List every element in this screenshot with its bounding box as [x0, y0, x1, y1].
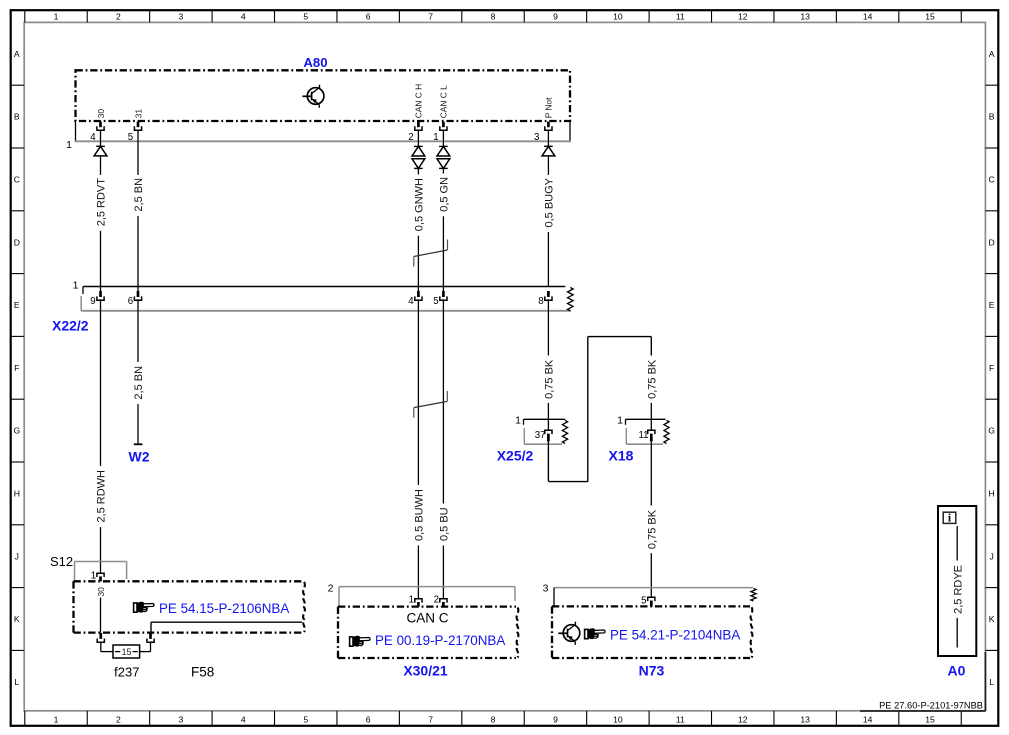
svg-text:A: A — [14, 49, 20, 59]
svg-text:G: G — [13, 426, 20, 436]
svg-text:0,75 BK: 0,75 BK — [647, 359, 659, 399]
svg-text:0,5 BUWH: 0,5 BUWH — [414, 489, 426, 541]
svg-text:10: 10 — [613, 714, 623, 724]
svg-text:0,5 BU: 0,5 BU — [439, 507, 451, 541]
svg-text:D: D — [14, 237, 20, 247]
svg-text:1: 1 — [617, 414, 623, 426]
svg-text:2: 2 — [116, 11, 121, 21]
svg-text:31: 31 — [133, 109, 143, 119]
svg-text:12: 12 — [738, 714, 748, 724]
svg-text:F58: F58 — [191, 665, 214, 680]
svg-text:11: 11 — [676, 714, 685, 724]
svg-text:X18: X18 — [609, 448, 634, 464]
svg-text:L: L — [14, 677, 19, 687]
svg-text:2,5 BN: 2,5 BN — [133, 366, 145, 400]
svg-text:1: 1 — [515, 414, 521, 426]
svg-text:W2: W2 — [129, 449, 150, 465]
svg-text:2: 2 — [116, 714, 121, 724]
svg-text:2,5 RDYE: 2,5 RDYE — [952, 565, 964, 614]
svg-text:15: 15 — [925, 714, 935, 724]
svg-text:14: 14 — [863, 11, 873, 21]
svg-text:C: C — [988, 175, 994, 185]
svg-text:4: 4 — [90, 132, 96, 143]
svg-text:5: 5 — [641, 595, 646, 606]
svg-text:L: L — [989, 677, 994, 687]
svg-text:2,5 RDVT: 2,5 RDVT — [96, 178, 108, 227]
svg-text:E: E — [989, 300, 995, 310]
svg-text:8: 8 — [491, 11, 496, 21]
svg-text:13: 13 — [800, 714, 810, 724]
svg-text:10: 10 — [613, 11, 623, 21]
svg-text:CAN C: CAN C — [406, 610, 448, 625]
svg-text:0,5 GN: 0,5 GN — [439, 177, 451, 212]
svg-text:F: F — [989, 363, 994, 373]
svg-text:7: 7 — [428, 714, 433, 724]
svg-text:K: K — [989, 614, 995, 624]
svg-text:6: 6 — [366, 714, 371, 724]
svg-text:5: 5 — [433, 296, 438, 307]
svg-text:F: F — [14, 363, 19, 373]
svg-text:5: 5 — [303, 714, 308, 724]
svg-text:A80: A80 — [303, 55, 327, 70]
svg-text:9: 9 — [553, 11, 558, 21]
svg-text:1: 1 — [54, 714, 59, 724]
svg-text:12: 12 — [738, 11, 748, 21]
svg-text:P Not: P Not — [544, 97, 554, 118]
svg-text:11: 11 — [676, 11, 685, 21]
svg-text:0,5 GNWH: 0,5 GNWH — [414, 178, 426, 231]
svg-text:X30/21: X30/21 — [403, 662, 448, 678]
svg-text:K: K — [14, 614, 20, 624]
svg-text:4: 4 — [241, 11, 246, 21]
svg-text:2: 2 — [408, 132, 413, 143]
svg-text:1: 1 — [66, 139, 72, 151]
svg-text:1: 1 — [54, 11, 59, 21]
svg-text:N73: N73 — [639, 662, 665, 678]
svg-text:3: 3 — [178, 714, 183, 724]
svg-text:G: G — [988, 426, 995, 436]
svg-text:2: 2 — [328, 582, 334, 594]
svg-text:2: 2 — [434, 594, 439, 605]
svg-text:B: B — [14, 112, 20, 122]
svg-text:B: B — [989, 112, 995, 122]
svg-text:J: J — [15, 551, 19, 561]
svg-text:PE 54.15-P-2106NBA: PE 54.15-P-2106NBA — [159, 601, 289, 616]
svg-text:9: 9 — [90, 296, 95, 307]
svg-text:X22/2: X22/2 — [52, 318, 89, 334]
svg-text:6: 6 — [128, 296, 133, 307]
svg-text:1: 1 — [409, 594, 414, 605]
svg-text:1: 1 — [91, 570, 96, 581]
svg-text:0,5 BUGY: 0,5 BUGY — [544, 177, 556, 227]
svg-text:CAN C L: CAN C L — [439, 85, 449, 118]
svg-text:9: 9 — [553, 714, 558, 724]
svg-text:PE 54.21-P-2104NBA: PE 54.21-P-2104NBA — [610, 627, 740, 642]
svg-text:PE 00.19-P-2170NBA: PE 00.19-P-2170NBA — [375, 633, 505, 648]
svg-text:A0: A0 — [948, 662, 966, 678]
svg-text:0,75 BK: 0,75 BK — [544, 359, 556, 399]
svg-text:14: 14 — [863, 714, 873, 724]
svg-text:D: D — [988, 237, 994, 247]
svg-text:X25/2: X25/2 — [497, 448, 534, 464]
svg-text:3: 3 — [178, 11, 183, 21]
svg-text:5: 5 — [303, 11, 308, 21]
svg-text:1: 1 — [433, 132, 438, 143]
svg-text:30: 30 — [96, 587, 106, 597]
svg-text:1: 1 — [73, 279, 79, 291]
svg-text:5: 5 — [128, 132, 133, 143]
svg-text:H: H — [14, 489, 20, 499]
svg-text:3: 3 — [534, 132, 539, 143]
svg-text:30: 30 — [96, 109, 106, 119]
svg-text:A: A — [989, 49, 995, 59]
svg-text:4: 4 — [408, 296, 414, 307]
svg-text:S12: S12 — [50, 554, 73, 569]
svg-text:2,5 RDWH: 2,5 RDWH — [96, 470, 108, 523]
svg-text:8: 8 — [491, 714, 496, 724]
svg-text:37: 37 — [535, 430, 546, 441]
svg-text:J: J — [989, 551, 993, 561]
svg-text:2,5 BN: 2,5 BN — [133, 178, 145, 212]
svg-text:13: 13 — [800, 11, 810, 21]
svg-text:0,75 BK: 0,75 BK — [647, 509, 659, 549]
svg-text:CAN C H: CAN C H — [414, 84, 424, 118]
svg-text:4: 4 — [241, 714, 246, 724]
svg-text:3: 3 — [543, 582, 549, 594]
svg-text:E: E — [14, 300, 20, 310]
svg-text:PE 27.60-P-2101-97NBB: PE 27.60-P-2101-97NBB — [879, 700, 983, 710]
svg-text:7: 7 — [428, 11, 433, 21]
svg-text:f237: f237 — [114, 665, 139, 680]
svg-text:C: C — [14, 175, 20, 185]
svg-text:15: 15 — [925, 11, 935, 21]
svg-text:6: 6 — [366, 11, 371, 21]
svg-text:15: 15 — [122, 647, 132, 657]
svg-text:H: H — [988, 489, 994, 499]
svg-text:8: 8 — [538, 296, 543, 307]
